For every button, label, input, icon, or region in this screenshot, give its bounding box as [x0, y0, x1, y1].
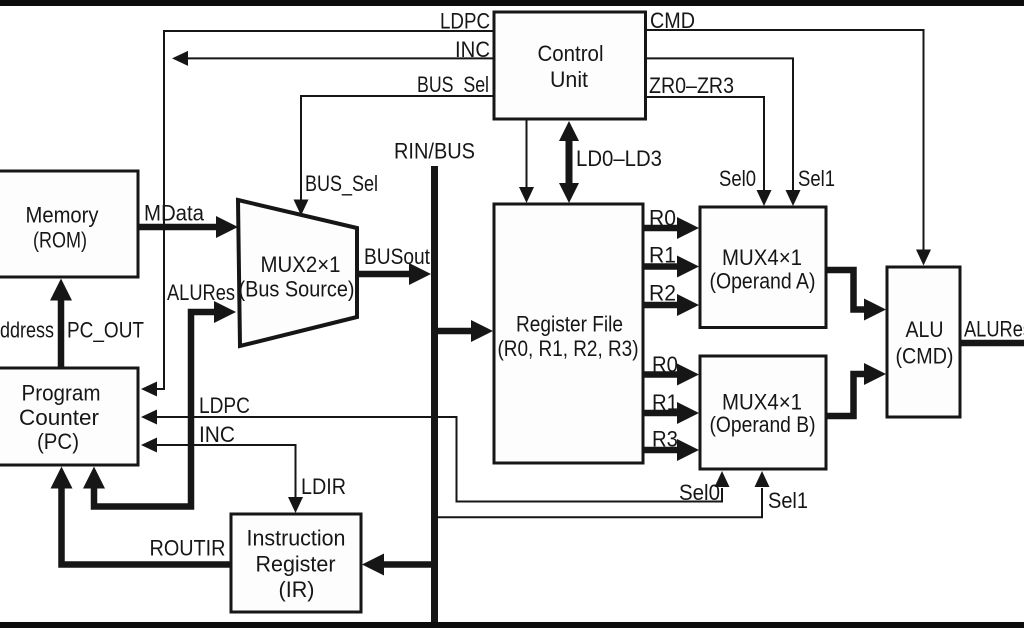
svg-text:LDPC: LDPC — [199, 393, 250, 418]
mux4x1 operand A box — [700, 207, 826, 328]
svg-text:LD0–LD3: LD0–LD3 — [576, 146, 662, 171]
svg-text:BUS_Sel: BUS_Sel — [305, 171, 378, 196]
bus RIN/BUS vertical line — [431, 166, 438, 622]
svg-text:Sel1: Sel1 — [798, 166, 835, 191]
svg-text:(Operand B): (Operand B) — [710, 412, 816, 437]
wire R0 register file to mux4x1 A — [643, 217, 699, 239]
svg-text:Address: Address — [0, 318, 54, 343]
svg-text:Sel1: Sel1 — [768, 488, 808, 513]
svg-text:Register File: Register File — [516, 312, 623, 337]
svg-text:(Bus Source): (Bus Source) — [239, 277, 355, 302]
svg-text:Register: Register — [256, 552, 336, 577]
svg-text:LDIR: LDIR — [301, 474, 346, 499]
svg-text:(IR): (IR) — [279, 577, 315, 602]
wire CMD from control unit to ALU — [646, 30, 931, 266]
wire bus to register file — [438, 320, 493, 342]
mux4x1 operand B box — [700, 356, 826, 469]
wire INC to program counter / LDIR to instruction register — [141, 438, 303, 514]
svg-text:ALU: ALU — [906, 317, 944, 342]
wire R2 register file to mux4x1 A — [643, 294, 699, 316]
wire from control unit down to register file (thin arrow) — [519, 120, 534, 203]
mux2x1 bus source trapezoid — [238, 200, 357, 346]
wire Sel1 from bus to mux4x1 operand B — [438, 471, 770, 517]
wire mux4x1 B output to ALU — [826, 363, 886, 416]
svg-text:Control: Control — [538, 41, 604, 66]
svg-text:R2: R2 — [649, 281, 676, 306]
svg-text:CMD: CMD — [650, 8, 695, 33]
svg-text:R0: R0 — [649, 206, 676, 231]
svg-text:(ROM): (ROM) — [33, 228, 87, 253]
svg-text:Sel0: Sel0 — [679, 480, 720, 505]
svg-text:Memory: Memory — [26, 203, 100, 228]
wire R1 register file to mux4x1 A — [643, 256, 699, 278]
svg-text:ALURes: ALURes — [167, 280, 235, 305]
wire LD0-LD3 double arrow control unit to register file — [559, 121, 579, 203]
svg-text:ALURes: ALURes — [964, 317, 1024, 342]
svg-text:R1: R1 — [649, 243, 676, 268]
svg-text:ROUTIR: ROUTIR — [150, 536, 226, 561]
svg-text:Instruction: Instruction — [247, 526, 346, 551]
svg-text:R1: R1 — [652, 390, 678, 415]
svg-text:(PC): (PC) — [37, 429, 79, 454]
control unit box — [494, 12, 646, 119]
wire ROUTIR instruction register to program counter — [51, 467, 232, 565]
wire BUS_Sel from control unit to mux2x1 — [294, 96, 495, 216]
program counter PC box — [0, 368, 138, 465]
instruction register IR box — [231, 514, 361, 612]
memory ROM box — [0, 171, 138, 277]
wire LDPC from control unit to program counter — [141, 31, 494, 397]
svg-text:RIN/BUS: RIN/BUS — [394, 139, 475, 164]
wire mux4x1 A output to ALU — [826, 270, 886, 321]
svg-text:MUX4×1: MUX4×1 — [722, 245, 802, 270]
svg-text:(R0, R1, R2, R3): (R0, R1, R2, R3) — [498, 336, 639, 361]
svg-text:Counter: Counter — [19, 405, 100, 430]
wire Sel1 from control unit to mux4x1 operand A — [646, 58, 801, 206]
wire R1 register file to mux4x1 B — [643, 402, 699, 424]
wire BUSout mux2x1 to bus — [357, 263, 431, 285]
wire PC_OUT program counter to memory — [50, 279, 72, 369]
svg-text:PC_OUT: PC_OUT — [67, 318, 144, 343]
svg-text:Program: Program — [22, 381, 101, 406]
top frame bar — [0, 0, 1024, 6]
svg-text:MUX2×1: MUX2×1 — [261, 252, 341, 277]
svg-text:R3: R3 — [652, 427, 678, 452]
svg-text:INC: INC — [455, 37, 490, 62]
wire R3 register file to mux4x1 B — [643, 439, 699, 461]
svg-text:Sel0: Sel0 — [719, 166, 756, 191]
svg-text:(Operand A): (Operand A) — [710, 269, 816, 294]
svg-text:R0: R0 — [652, 352, 678, 377]
wire ALURes into mux2x1 and to program counter — [83, 301, 236, 507]
svg-text:BUS_Sel: BUS_Sel — [417, 72, 489, 97]
ALU box — [887, 267, 960, 417]
wire MData memory to mux2x1 — [138, 216, 238, 238]
svg-text:Unit: Unit — [550, 67, 589, 92]
bottom frame bar — [0, 622, 1024, 628]
svg-text:ZR0–ZR3: ZR0–ZR3 — [649, 73, 734, 98]
svg-text:BUSout: BUSout — [364, 244, 431, 269]
svg-text:MUX4×1: MUX4×1 — [722, 390, 802, 415]
svg-text:INC: INC — [199, 422, 235, 447]
wire ZR0-ZR3 from control unit to mux4x1 operand A Sel0 — [646, 97, 772, 206]
wire bus to instruction register — [362, 554, 431, 576]
wire ALURes output from ALU — [960, 340, 1024, 347]
wire LDPC to program counter from mux4x1 B Sel0 run — [141, 410, 730, 502]
wire INC stub from control unit — [172, 51, 494, 66]
register file box — [494, 204, 643, 463]
svg-text:MData: MData — [144, 201, 204, 226]
svg-text:(CMD): (CMD) — [896, 344, 954, 369]
wire R0 register file to mux4x1 B — [643, 364, 699, 386]
svg-text:LDPC: LDPC — [440, 9, 490, 34]
